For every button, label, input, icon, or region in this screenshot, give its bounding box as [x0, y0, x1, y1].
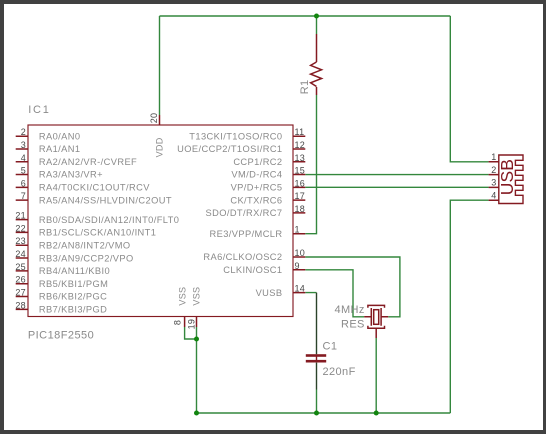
svg-text:RB1/SCL/SCK/AN10/INT1: RB1/SCL/SCK/AN10/INT1 [39, 228, 156, 238]
svg-text:T13CKI/T1OSO/RC0: T13CKI/T1OSO/RC0 [189, 131, 282, 141]
svg-text:3: 3 [21, 140, 26, 150]
svg-text:24: 24 [15, 249, 26, 259]
svg-text:9: 9 [295, 261, 300, 271]
svg-text:RB3/AN9/CCP2/VPO: RB3/AN9/CCP2/VPO [39, 253, 134, 263]
svg-text:10: 10 [295, 248, 306, 258]
svg-text:CK/TX/RC6: CK/TX/RC6 [230, 195, 282, 205]
svg-text:RA2/AN2/VR-/CVREF: RA2/AN2/VR-/CVREF [39, 157, 137, 167]
svg-text:VUSB: VUSB [256, 288, 283, 298]
svg-text:18: 18 [295, 204, 306, 214]
svg-text:3: 3 [491, 178, 496, 188]
svg-text:C1: C1 [323, 340, 338, 352]
svg-text:RA4/T0CKI/C1OUT/RCV: RA4/T0CKI/C1OUT/RCV [39, 183, 150, 193]
svg-text:20: 20 [149, 113, 159, 124]
svg-text:UOE/CCP2/T1OSI/RC1: UOE/CCP2/T1OSI/RC1 [177, 144, 282, 154]
svg-text:VP/D+/RC5: VP/D+/RC5 [231, 183, 283, 193]
svg-text:4: 4 [21, 153, 26, 163]
svg-text:VDD: VDD [155, 137, 165, 157]
svg-text:RA1/AN1: RA1/AN1 [39, 144, 81, 154]
svg-text:26: 26 [15, 275, 26, 285]
svg-text:6: 6 [21, 178, 26, 188]
svg-text:PIC18F2550: PIC18F2550 [28, 329, 94, 341]
svg-text:220nF: 220nF [323, 366, 356, 378]
svg-text:IC1: IC1 [28, 104, 51, 116]
svg-text:17: 17 [295, 191, 306, 201]
svg-text:4MHz: 4MHz [334, 304, 364, 316]
svg-text:RB5/KBI1/PGM: RB5/KBI1/PGM [39, 279, 108, 289]
svg-text:23: 23 [15, 236, 26, 246]
svg-text:USB: USB [497, 159, 517, 195]
svg-text:19: 19 [187, 319, 197, 330]
svg-text:VSS: VSS [191, 287, 201, 306]
svg-text:15: 15 [295, 166, 306, 176]
svg-text:21: 21 [15, 211, 26, 221]
svg-text:VM/D-/RC4: VM/D-/RC4 [231, 170, 282, 180]
svg-text:28: 28 [15, 300, 26, 310]
svg-text:7: 7 [21, 191, 26, 201]
svg-text:1: 1 [295, 225, 300, 235]
svg-text:5: 5 [21, 166, 26, 176]
svg-text:4: 4 [491, 190, 496, 200]
svg-text:RB0/SDA/SDI/AN12/INT0/FLT0: RB0/SDA/SDI/AN12/INT0/FLT0 [39, 215, 179, 225]
svg-text:CLKIN/OSC1: CLKIN/OSC1 [223, 265, 282, 275]
svg-text:16: 16 [295, 178, 306, 188]
svg-text:RB2/AN8/INT2/VMO: RB2/AN8/INT2/VMO [39, 240, 131, 250]
svg-text:11: 11 [295, 127, 305, 137]
svg-text:SDO/DT/RX/RC7: SDO/DT/RX/RC7 [205, 208, 282, 218]
svg-text:8: 8 [173, 320, 183, 325]
svg-text:RA3/AN3/VR+: RA3/AN3/VR+ [39, 170, 103, 180]
svg-text:22: 22 [15, 223, 26, 233]
svg-text:CCP1/RC2: CCP1/RC2 [233, 157, 282, 167]
svg-text:RB7/KBI3/PGD: RB7/KBI3/PGD [39, 305, 107, 315]
svg-text:27: 27 [15, 288, 26, 298]
svg-text:VSS: VSS [178, 287, 188, 306]
svg-text:RB6/KBI2/PGC: RB6/KBI2/PGC [39, 292, 107, 302]
svg-text:RA5/AN4/SS/HLVDIN/C2OUT: RA5/AN4/SS/HLVDIN/C2OUT [39, 195, 172, 205]
svg-text:RB4/AN11/KBI0: RB4/AN11/KBI0 [39, 266, 110, 276]
svg-text:2: 2 [491, 165, 496, 175]
svg-text:1: 1 [491, 152, 496, 162]
svg-text:RA0/AN0: RA0/AN0 [39, 131, 81, 141]
svg-text:14: 14 [295, 284, 306, 294]
svg-text:25: 25 [15, 262, 26, 272]
svg-text:R1: R1 [299, 79, 311, 94]
svg-text:RES: RES [341, 318, 365, 330]
svg-text:RA6/CLKO/OSC2: RA6/CLKO/OSC2 [203, 252, 282, 262]
svg-text:13: 13 [295, 153, 306, 163]
svg-text:2: 2 [21, 127, 26, 137]
svg-text:12: 12 [295, 140, 306, 150]
svg-text:RE3/VPP/MCLR: RE3/VPP/MCLR [210, 229, 283, 239]
